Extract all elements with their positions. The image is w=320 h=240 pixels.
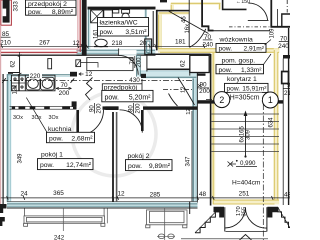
svg-text:pow.: pow. (128, 163, 142, 170)
svg-text:365: 365 (53, 190, 64, 197)
svg-text:16x: 16x (185, 24, 191, 34)
svg-text:430: 430 (129, 77, 140, 84)
svg-text:korytarz 1: korytarz 1 (227, 76, 257, 83)
svg-text:24: 24 (20, 190, 28, 197)
svg-text:3Ox: 3Ox (32, 115, 42, 121)
svg-text:48: 48 (284, 192, 290, 199)
svg-text:45: 45 (182, 16, 188, 23)
svg-text:pow.: pow. (28, 9, 42, 16)
svg-text:12: 12 (181, 87, 187, 93)
svg-text:1,33m²: 1,33m² (241, 67, 262, 74)
svg-text:200: 200 (97, 103, 103, 114)
svg-text:218: 218 (112, 40, 123, 47)
svg-text:←150: ←150 (236, 0, 250, 5)
svg-text:85: 85 (2, 31, 10, 38)
svg-text:355: 355 (242, 207, 248, 217)
svg-text:12: 12 (72, 40, 80, 47)
svg-text:347: 347 (186, 156, 192, 167)
svg-text:pow.: pow. (100, 29, 114, 36)
svg-text:pow.: pow. (219, 67, 233, 74)
svg-text:109: 109 (270, 28, 276, 39)
svg-text:220: 220 (30, 73, 41, 80)
svg-text:242: 242 (54, 235, 65, 240)
svg-text:H=404cm: H=404cm (232, 180, 261, 187)
svg-text:pokój 1: pokój 1 (41, 152, 63, 159)
svg-text:62: 62 (181, 60, 187, 67)
svg-text:1: 1 (268, 95, 273, 105)
svg-text:251: 251 (239, 191, 250, 198)
svg-text:5,20m²: 5,20m² (129, 94, 151, 101)
svg-text:12: 12 (117, 191, 125, 198)
svg-text:349: 349 (18, 153, 24, 164)
svg-text:3Ox: 3Ox (49, 115, 59, 121)
svg-text:240: 240 (278, 43, 289, 50)
svg-text:210: 210 (0, 39, 11, 46)
svg-text:pow.: pow. (49, 135, 63, 142)
svg-text:90: 90 (287, 82, 290, 89)
svg-text:200: 200 (136, 103, 142, 114)
svg-text:12: 12 (186, 108, 192, 114)
svg-text:pow.: pow. (40, 162, 54, 169)
svg-text:161: 161 (94, 28, 100, 39)
svg-text:wózkownia: wózkownia (219, 36, 253, 43)
svg-text:200: 200 (137, 57, 143, 68)
svg-text:309: 309 (246, 129, 252, 140)
svg-text:3Ox: 3Ox (13, 115, 23, 121)
svg-text:122: 122 (13, 84, 19, 95)
svg-text:333: 333 (13, 1, 20, 12)
svg-text:240: 240 (202, 41, 213, 48)
svg-text:8,89m²: 8,89m² (52, 9, 74, 16)
svg-text:200: 200 (199, 88, 210, 95)
svg-text:285: 285 (150, 191, 161, 198)
svg-text:łazienka/WC: łazienka/WC (100, 20, 138, 27)
svg-text:H=305cm: H=305cm (230, 95, 260, 102)
svg-text:48: 48 (199, 191, 207, 198)
svg-text:15,91m²: 15,91m² (242, 86, 267, 93)
svg-text:12: 12 (85, 71, 93, 78)
svg-text:pow.: pow. (105, 94, 119, 101)
svg-text:12,74m²: 12,74m² (66, 162, 92, 169)
svg-text:634: 634 (269, 117, 275, 128)
svg-text:pom. gosp.: pom. gosp. (222, 58, 256, 65)
svg-text:181: 181 (175, 38, 186, 45)
svg-text:pokój 2: pokój 2 (128, 153, 150, 160)
svg-text:2: 2 (219, 95, 224, 105)
svg-text:20: 20 (139, 40, 147, 47)
svg-text:0,990: 0,990 (240, 160, 256, 167)
svg-text:70: 70 (60, 82, 68, 89)
svg-text:pow.: pow. (227, 86, 241, 93)
svg-text:przedpokój 2: przedpokój 2 (28, 1, 67, 8)
svg-text:2,68m²: 2,68m² (71, 135, 93, 142)
svg-text:200: 200 (59, 90, 70, 97)
svg-text:62: 62 (11, 60, 17, 67)
svg-text:pow.: pow. (219, 46, 233, 53)
svg-text:267: 267 (39, 40, 50, 47)
svg-text:210: 210 (284, 90, 290, 97)
svg-text:2,91m²: 2,91m² (243, 46, 264, 53)
svg-text:9,89m²: 9,89m² (149, 163, 171, 170)
svg-text:3,51m²: 3,51m² (125, 29, 147, 36)
